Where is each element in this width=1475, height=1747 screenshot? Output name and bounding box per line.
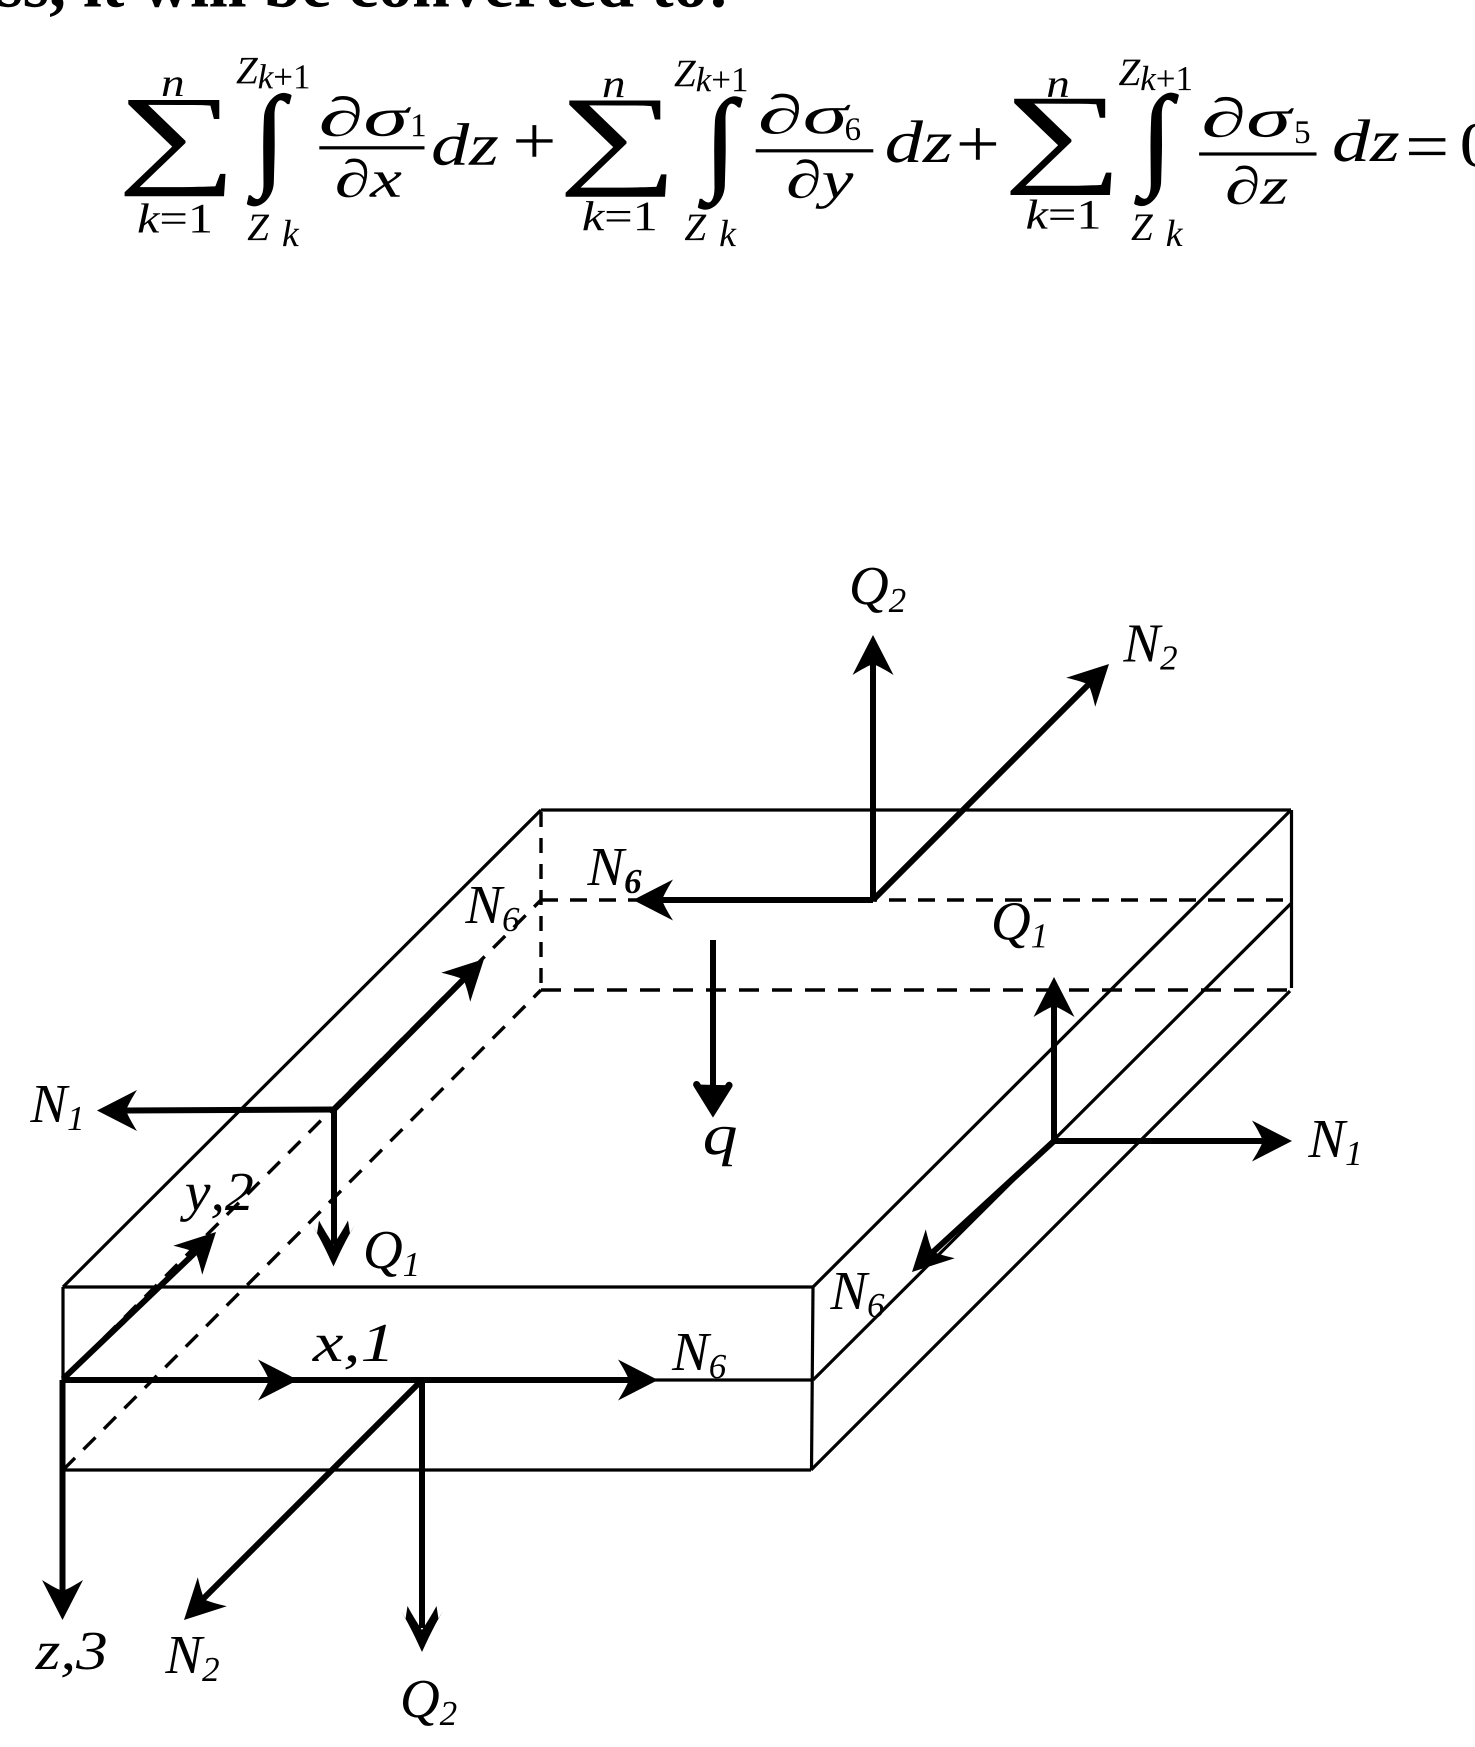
plate right face bottom edge xyxy=(811,991,1290,1470)
sum 2 upper limit n xyxy=(604,78,624,97)
fraction 2 numerator subscript xyxy=(846,118,860,140)
N6 left arrowhead xyxy=(441,945,498,1002)
equation sum 3 xyxy=(1011,99,1112,195)
N1 left arrowhead xyxy=(97,1090,137,1131)
N1 right arrowhead xyxy=(1252,1121,1292,1162)
sum 3 lower limit k=1 xyxy=(1027,200,1099,229)
N2 bottom shaft xyxy=(201,1380,422,1601)
label Q1 right xyxy=(994,903,1044,948)
N1 right shaft xyxy=(1054,1138,1267,1144)
hidden mid-plane back edge xyxy=(541,898,1291,901)
N6 left shaft xyxy=(334,976,467,1110)
dz 1 xyxy=(433,123,497,165)
q load shaft xyxy=(710,940,716,1101)
y-axis shaft xyxy=(63,1245,203,1379)
N6 front arrowhead xyxy=(618,1360,658,1401)
label N6 right xyxy=(830,1273,884,1317)
hidden mid-plane left edge xyxy=(63,900,541,1379)
label N2 bottom xyxy=(165,1637,219,1681)
plate front-left vertical edge xyxy=(61,1287,64,1471)
x-axis / N6 front shaft xyxy=(63,1377,650,1383)
plus 2 xyxy=(960,128,996,160)
fraction 2 denominator xyxy=(789,159,854,209)
N2 top arrowhead xyxy=(1066,650,1123,707)
plate right face mid-plane edge xyxy=(813,903,1292,1380)
y-axis arrowhead xyxy=(173,1218,230,1275)
Q1 right arrowhead xyxy=(1034,977,1075,1017)
integral 2 lower limit Z_k xyxy=(685,215,737,247)
equation sum 2 xyxy=(566,101,667,197)
sum 2 lower limit k=1 xyxy=(583,201,655,230)
equation sum 1 xyxy=(125,100,226,196)
z-axis arrowhead xyxy=(42,1580,83,1620)
Q1 left shaft xyxy=(331,1110,337,1245)
N2 bottom arrowhead xyxy=(170,1577,227,1634)
sum 1 upper limit n xyxy=(163,77,183,96)
plate front-right vertical edge xyxy=(812,1287,814,1470)
plate back-right vertical edge xyxy=(1290,810,1293,988)
label Q2 top xyxy=(852,568,905,613)
label N1 right xyxy=(1308,1121,1359,1165)
integral 1 upper limit Z_k+1 xyxy=(237,58,309,89)
N6 top arrowhead xyxy=(633,880,673,921)
label x,1 axis xyxy=(312,1325,388,1370)
fraction 1 numerator xyxy=(322,96,412,136)
label N6 left xyxy=(465,887,519,931)
label Q1 left xyxy=(366,1232,416,1277)
plate top left edge xyxy=(63,810,541,1287)
integral 1 xyxy=(248,94,291,206)
fraction 1 numerator subscript xyxy=(413,114,425,136)
hidden bottom back edge xyxy=(541,988,1291,991)
plate top right edge xyxy=(813,810,1291,1287)
label z,3 axis xyxy=(35,1633,106,1678)
sum 1 lower limit k=1 xyxy=(139,203,211,232)
integral 2 xyxy=(699,97,742,209)
Q2 bottom arrowhead xyxy=(401,1606,443,1652)
equals sign xyxy=(1409,138,1445,155)
Q2 top arrowhead xyxy=(853,635,894,675)
plate top back edge xyxy=(541,808,1291,811)
Q2 top shaft xyxy=(870,660,876,900)
plate front mid-plane edge (thin part) xyxy=(650,1378,813,1381)
label y,2 axis xyxy=(180,1174,253,1222)
N6 right arrowhead xyxy=(898,1229,955,1286)
q load arrowhead xyxy=(697,1085,730,1112)
fraction 3 bar xyxy=(1199,152,1316,155)
Q2 bottom shaft xyxy=(419,1380,425,1628)
label Q2 bottom xyxy=(403,1681,456,1726)
fraction 1 bar xyxy=(319,146,424,149)
N6 top shaft xyxy=(658,897,873,903)
fraction 3 numerator xyxy=(1204,97,1294,137)
z-axis shaft xyxy=(60,1380,66,1596)
plus 1 xyxy=(516,125,552,157)
N2 top shaft xyxy=(873,682,1091,900)
dz 3 xyxy=(1334,119,1398,161)
label N1 left xyxy=(30,1086,81,1130)
cropped heading text line xyxy=(0,0,724,17)
fraction 2 bar xyxy=(756,149,874,152)
Q1 right shaft xyxy=(1051,1002,1057,1141)
integral 3 upper limit Z_k+1 xyxy=(1119,60,1191,91)
dz 2 xyxy=(887,120,951,162)
integral 1 lower limit Z_k xyxy=(248,215,300,247)
label q load xyxy=(705,1127,736,1167)
plate front bottom edge xyxy=(63,1468,811,1471)
integral 3 lower limit Z_k xyxy=(1132,215,1184,247)
plate top front edge xyxy=(63,1285,813,1288)
integral 2 upper limit Z_k+1 xyxy=(675,61,747,91)
Q1 left arrowhead xyxy=(313,1221,355,1267)
hidden back-left vertical edge xyxy=(539,812,542,989)
x-axis arrowhead xyxy=(258,1360,298,1401)
zero (cut off at edge) xyxy=(1462,124,1475,167)
fraction 3 numerator subscript xyxy=(1296,121,1309,143)
sum 3 upper limit n xyxy=(1048,78,1068,97)
fraction 1 denominator xyxy=(337,159,401,198)
N6 right shaft xyxy=(932,1141,1054,1253)
label N6 top xyxy=(587,849,642,893)
fraction 2 numerator xyxy=(761,94,851,134)
integral 3 xyxy=(1135,93,1178,205)
N1 left shaft xyxy=(121,1110,334,1111)
fraction 3 denominator xyxy=(1228,166,1288,205)
hidden bottom left edge xyxy=(63,990,541,1470)
label N2 top xyxy=(1123,626,1177,670)
label N6 front xyxy=(672,1334,726,1378)
